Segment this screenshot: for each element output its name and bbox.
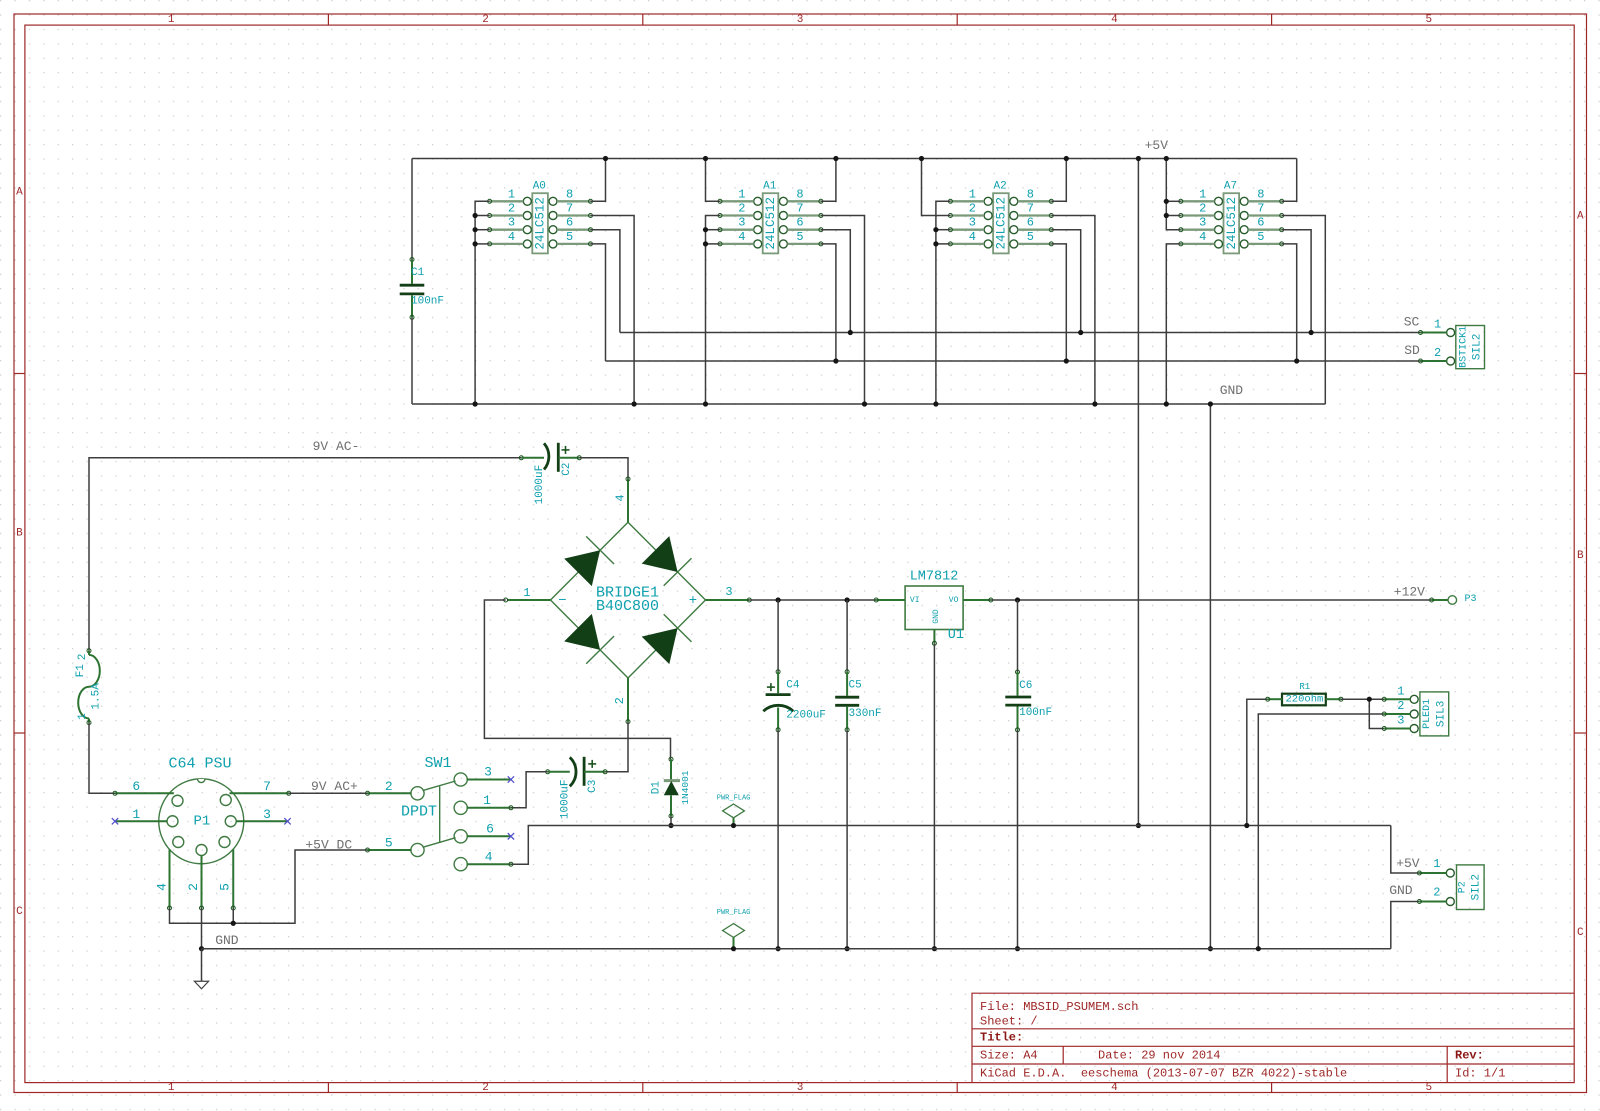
svg-text:Rev:: Rev: [1455,1048,1484,1062]
wire SW1 pin4 to +5V line [511,826,1391,865]
svg-text:1N4001: 1N4001 [680,770,691,805]
power flag PWR_FLAG (GND) [717,909,751,949]
svg-text:24LC512: 24LC512 [764,197,778,250]
svg-text:+: + [689,593,697,609]
wire A0 pin8 to +5V rail [591,159,606,202]
svg-text:4: 4 [1111,1082,1118,1094]
connector pin P3 [1430,594,1477,605]
svg-text:6: 6 [132,779,140,794]
svg-text:5: 5 [796,230,803,244]
capacitor C2 1000uF [519,443,581,505]
svg-text:3: 3 [263,807,271,822]
svg-text:5: 5 [218,883,233,891]
regulator U1 LM7812 [874,570,993,646]
wire A1 pin7 to GND rail [821,216,865,405]
wire GND line [202,948,1391,950]
wire A7 pin8 to +5V rail [1282,159,1297,202]
junction A7 left bus [1164,199,1169,204]
IC A2 24LC512 body [948,181,1053,254]
svg-text:1: 1 [1434,318,1441,332]
wire A1 pin5 to SD line [821,244,836,361]
svg-text:4: 4 [614,494,628,501]
junction P1 pin5 [231,921,236,926]
svg-text:KiCad E.D.A. eeschema (2013-0: KiCad E.D.A. eeschema (2013-07-07 BZR 40… [980,1066,1347,1080]
wire GND rail [412,403,1325,405]
svg-text:24LC512: 24LC512 [1225,197,1239,250]
svg-text:1000uF: 1000uF [534,465,546,505]
svg-text:5: 5 [1257,230,1264,244]
wire C4 to GND line [777,730,779,949]
svg-text:1: 1 [132,807,140,822]
connector BSTICK1 SIL2 [1419,318,1485,369]
wire A7 pins1-3 to +5V rail [1166,159,1181,230]
svg-text:DPDT: DPDT [401,804,437,821]
SW1 pole A common [411,787,424,800]
svg-text:2: 2 [1397,699,1404,713]
bridge rectifier BRIDGE1 B40C800 [504,477,752,724]
svg-text:6: 6 [486,822,494,837]
svg-text:1.5A: 1.5A [91,683,103,710]
title block [972,993,1574,1082]
capacitor C1 [400,159,444,405]
wire C2 to bridge pin4 [579,458,628,479]
svg-text:4: 4 [508,230,515,244]
svg-text:4: 4 [154,883,169,891]
svg-text:Sheet: /: Sheet: / [980,1015,1038,1029]
wire GND rail down to GND line [1209,404,1211,949]
svg-text:C1: C1 [411,267,425,279]
bridge pin 2 [627,678,629,722]
wire A1 pins2-4 to GND bus [706,216,721,405]
wire A2 pin2 to +5V rail [922,159,951,216]
svg-text:220ohm: 220ohm [1285,694,1323,706]
wire A7 pin5 to SD line [1282,244,1297,361]
switch SW1 DPDT [366,755,513,871]
svg-text:SW1: SW1 [424,755,451,772]
bridge pin 1 [507,599,551,601]
SW1 pole B throw 6 [454,830,467,843]
svg-text:9V AC+: 9V AC+ [311,779,358,794]
junction A1 left bus [703,227,708,232]
svg-text:SC: SC [1404,315,1420,330]
wire R1 to PLED1 pins 1,3 [1341,698,1384,700]
wire A7 pin6 to SC line [1282,230,1311,333]
svg-text:5: 5 [1425,14,1432,26]
junction A2 left bus [933,227,938,232]
svg-text:3: 3 [508,216,515,230]
wire fuse F1 to P1 pin6 [89,723,115,794]
svg-text:D1: D1 [651,781,663,795]
diode bridge top-left [564,550,600,586]
svg-text:7: 7 [796,202,803,216]
SW1 pole A throw 3 [454,773,467,786]
svg-text:4: 4 [969,230,976,244]
svg-text:1: 1 [168,1082,175,1094]
capacitor C6 100nF [1005,600,1052,732]
wire SW1 pin1 to C3 [511,772,548,808]
svg-text:+5V DC: +5V DC [305,838,352,853]
wire A2 pin7 to GND rail [1051,216,1095,405]
wire A2 pin5 to SD line [1051,244,1066,361]
svg-text:2200uF: 2200uF [786,710,826,722]
svg-text:6: 6 [566,216,573,230]
svg-text:24LC512: 24LC512 [994,197,1008,250]
svg-text:5: 5 [385,836,393,851]
wire +5V rail down to +5V line [1137,159,1139,826]
svg-text:4: 4 [738,230,745,244]
wire bridge pin3 to U1 VI [749,599,876,601]
SW1 pole A throw 1 [454,801,467,814]
P1 pin 2 [201,856,203,909]
svg-text:7: 7 [1257,202,1264,216]
svg-text:2: 2 [482,1082,489,1094]
svg-text:+5V: +5V [1396,856,1420,871]
svg-text:SIL3: SIL3 [1435,701,1447,727]
svg-text:6: 6 [1257,216,1264,230]
svg-text:5: 5 [1027,230,1034,244]
svg-text:B40C800: B40C800 [596,598,659,615]
wire C5 to GND line [846,730,848,949]
svg-text:8: 8 [566,187,573,201]
wire +5V line to P2 pin1 [1391,826,1420,874]
svg-text:C2: C2 [561,463,573,476]
svg-text:330nF: 330nF [849,708,882,720]
wire P1 pin2 to GND [201,908,203,949]
svg-text:1: 1 [1397,685,1404,699]
capacitor C5 330nF [835,600,881,732]
svg-text:4: 4 [485,850,493,865]
svg-text:C6: C6 [1019,680,1032,692]
svg-text:GND: GND [1220,383,1244,398]
svg-text:2: 2 [1434,346,1441,360]
wire P1 pin7 to SW1 (9V AC+) [289,792,368,794]
svg-text:P2: P2 [1458,881,1469,893]
svg-text:VO: VO [949,596,959,605]
P1 pin 5 [232,850,234,909]
diode D1 1N4001 [651,757,691,818]
connector P1 C64 PSU DIN [113,755,291,910]
svg-text:5: 5 [1425,1082,1432,1094]
wire A0 pin6 to SC line [591,230,620,333]
svg-text:C64 PSU: C64 PSU [168,755,231,772]
svg-text:A1: A1 [763,181,777,193]
wire A1 pin1 to +5V rail [706,159,721,202]
svg-text:+12V: +12V [1394,585,1425,600]
svg-text:100nF: 100nF [1019,707,1052,719]
power flag PWR_FLAG (+5V) [717,795,751,826]
svg-text:C: C [1577,927,1584,939]
IC A0 24LC512 body [488,181,593,254]
wire U1 VO to P3 +12V [991,599,1432,601]
junction GND at P1 [199,946,204,951]
svg-text:2: 2 [482,14,489,26]
wire D1 to +5V line [670,816,672,826]
svg-text:Id: 1/1: Id: 1/1 [1455,1066,1505,1080]
svg-text:A: A [1577,211,1584,223]
svg-text:24LC512: 24LC512 [534,197,548,250]
wire A7 pin4 to GND rail [1166,244,1181,404]
wire A0 pin7 to GND rail [591,216,635,405]
svg-text:5: 5 [566,230,573,244]
svg-text:2: 2 [385,779,393,794]
svg-text:1: 1 [1433,857,1440,871]
P1 pin 1 (no connect) [115,820,167,822]
connector P2 SIL2 [1417,857,1484,910]
IC A1 24LC512 body [718,181,823,254]
capacitor C3 1000uF [546,757,607,819]
no-connect x SW1 pin6 [508,833,514,839]
connector PLED1 SIL3 [1382,685,1449,736]
svg-text:2: 2 [613,697,627,704]
wire A1 pin6 to SC line [821,230,850,333]
no-connect x P1 pin1 [112,818,118,824]
no-connect x SW1 pin3 [508,776,514,782]
svg-text:3: 3 [725,585,732,599]
P1 pin 6 [115,792,174,794]
wire 9V AC- from C2 to fuse F1 [89,458,521,651]
wire A2 pin8 to +5V rail [1051,159,1066,202]
svg-text:4: 4 [1199,230,1206,244]
svg-text:U1: U1 [948,628,964,643]
bridge pin 4 [627,479,629,522]
svg-text:A7: A7 [1224,181,1237,193]
diode bridge top-right [642,536,678,572]
svg-text:F1: F1 [75,664,87,678]
svg-text:C5: C5 [849,680,862,692]
svg-text:R1: R1 [1299,682,1310,692]
diode bridge bottom-right [642,628,678,664]
svg-text:8: 8 [1257,187,1264,201]
wire A7 pin7 to GND rail [1282,216,1326,405]
fuse F1 [75,649,103,725]
svg-text:A2: A2 [993,181,1006,193]
svg-text:4: 4 [1111,14,1118,26]
svg-text:C3: C3 [587,780,599,793]
SW1 pole B lever [423,838,456,848]
svg-text:SIL2: SIL2 [1472,334,1484,360]
svg-text:−: − [558,593,566,609]
svg-text:B: B [16,528,23,540]
svg-text:1: 1 [483,793,491,808]
svg-text:2: 2 [738,202,745,216]
svg-text:VI: VI [910,596,920,605]
svg-text:BSTICK1: BSTICK1 [1459,326,1470,368]
svg-text:PLED1: PLED1 [1422,699,1433,729]
svg-text:7: 7 [263,779,271,794]
svg-text:GND: GND [1389,883,1413,898]
wire A0 pin5 to SD line [591,244,606,361]
SW1 pole A lever [423,781,456,791]
wire A2 pins1,3,4 to GND bus [936,201,951,404]
svg-text:6: 6 [796,216,803,230]
svg-text:3: 3 [797,14,804,26]
svg-text:GND: GND [215,933,239,948]
P1 pin 4 [169,850,171,909]
wire P1 pins 4,5 to SW1 (+5V DC) [170,850,368,923]
svg-text:6: 6 [1027,216,1034,230]
svg-text:C: C [16,906,23,918]
svg-text:3: 3 [1199,216,1206,230]
svg-text:Title:: Title: [980,1030,1023,1044]
wire C6 to GND line [1017,730,1019,949]
svg-text:1: 1 [738,187,745,201]
svg-text:7: 7 [566,202,573,216]
svg-text:A0: A0 [533,181,546,193]
svg-text:3: 3 [797,1082,804,1094]
svg-text:PWR_FLAG: PWR_FLAG [717,795,751,803]
no-connect x P1 pin3 [284,818,290,824]
svg-text:2: 2 [1199,202,1206,216]
capacitor C4 2200uF [763,600,826,732]
svg-text:GND: GND [932,609,941,624]
wire SD line [606,360,1421,362]
svg-text:LM7812: LM7812 [910,570,959,585]
svg-text:2: 2 [969,202,976,216]
svg-text:B: B [1577,550,1584,562]
svg-text:P1: P1 [193,813,210,829]
ground symbol [194,949,208,989]
SW1 pole B throw 4 [454,858,467,871]
wire A2 pin6 to SC line [1051,230,1080,333]
wire SC line [620,332,1421,334]
wire GND line to P2 pin2 [1391,902,1420,949]
svg-text:1: 1 [969,187,976,201]
svg-text:3: 3 [1397,714,1404,728]
wire bridge pin1 to diode D1 [484,600,670,759]
resistor R1 220ohm [1266,682,1343,706]
svg-text:P3: P3 [1464,594,1476,605]
svg-text:8: 8 [796,187,803,201]
wire A0 pins1-4 to GND bus [475,201,490,404]
svg-text:1: 1 [523,586,530,600]
svg-text:+5V: +5V [1145,138,1169,153]
svg-text:3: 3 [738,216,745,230]
SW1 mechanical link [439,786,441,843]
svg-text:1: 1 [508,187,515,201]
svg-text:2: 2 [77,654,89,661]
svg-text:Date: 29 nov 2014: Date: 29 nov 2014 [1098,1048,1220,1062]
svg-text:SD: SD [1404,343,1420,358]
svg-text:9V AC-: 9V AC- [313,439,360,454]
svg-text:PWR_FLAG: PWR_FLAG [717,909,751,917]
P1 pin 7 [230,792,289,794]
junction A0 left bus [473,213,478,218]
svg-text:C4: C4 [786,680,800,692]
svg-text:A: A [16,187,23,199]
svg-text:SIL2: SIL2 [1471,874,1483,900]
wire +5V line to R1 [1247,699,1268,825]
IC A7 24LC512 body [1179,181,1284,254]
svg-text:2: 2 [508,202,515,216]
svg-text:100nF: 100nF [411,296,444,308]
svg-text:8: 8 [1027,187,1034,201]
P1 pin 3 (no connect) [236,820,287,822]
wire U1 GND to GND line [933,643,935,948]
bridge pin 3 [706,599,750,601]
junction R1 output [1367,697,1372,702]
SW1 pole B common [411,843,424,856]
diode bridge bottom-left [564,614,600,650]
svg-text:1: 1 [77,713,89,720]
svg-text:File: MBSID_PSUMEM.sch: File: MBSID_PSUMEM.sch [980,1000,1138,1014]
wire PLED1 pin2 to GND line [1258,714,1384,949]
wire A1 pin8 to +5V rail [821,159,836,202]
svg-text:1: 1 [168,14,175,26]
svg-text:1: 1 [1199,187,1206,201]
svg-text:1000uF: 1000uF [560,779,572,819]
svg-text:3: 3 [484,765,492,780]
svg-text:2: 2 [1433,886,1440,900]
wire +5V rail [412,158,1297,160]
svg-text:3: 3 [969,216,976,230]
wire bridge pin2 to C3 [605,722,628,772]
svg-text:Size: A4: Size: A4 [980,1048,1038,1062]
svg-text:7: 7 [1027,202,1034,216]
svg-text:2: 2 [186,883,201,891]
